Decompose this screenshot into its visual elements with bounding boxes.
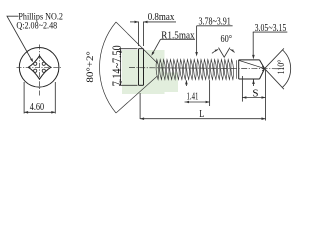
svg-text:110°: 110° — [275, 60, 286, 75]
L extension line left — [139, 93, 141, 119]
svg-text:60°: 60° — [221, 33, 233, 45]
7.14~7.50 extension line bottom — [119, 84, 138, 86]
3.05~3.15 bottom arrow tail — [253, 80, 255, 87]
front view horizontal centerline — [17, 66, 63, 68]
drill point body top edge — [239, 59, 260, 61]
3.78~3.91 text underline — [197, 25, 233, 27]
7.14~7.50 extension line top — [119, 48, 138, 50]
svg-text:0.8max: 0.8max — [148, 11, 175, 23]
S / L extension line right — [265, 70, 267, 121]
svg-text:80°+2°: 80°+2° — [86, 51, 96, 82]
60 degree arc left with arrow — [212, 49, 218, 53]
svg-text:4.60: 4.60 — [30, 101, 44, 113]
7.14~7.50 dimension line — [120, 49, 122, 86]
green watermark rect behind head side view — [122, 50, 165, 94]
3.78~3.91 leader vertical — [196, 26, 198, 52]
4.60 extension line left — [23, 82, 25, 114]
drill point lower flank — [260, 69, 265, 79]
4.60 dimension line — [24, 111, 55, 113]
svg-text:3.05~3.15: 3.05~3.15 — [255, 22, 287, 35]
svg-text:7.14~7.50: 7.14~7.50 — [110, 45, 124, 86]
drill point upper flank — [260, 60, 265, 69]
phillips recess cross outline — [28, 56, 51, 79]
front view vertical centerline — [39, 45, 41, 97]
drill point flute diagonal — [239, 60, 265, 68]
head face line inner (cone base) — [143, 49, 145, 86]
phillips recess corner circle NW — [34, 62, 37, 65]
110 degree upper line — [262, 48, 284, 71]
3.05~3.15 text underline — [253, 31, 287, 33]
0.8max extension line right — [143, 22, 145, 47]
leader arrowhead — [30, 58, 33, 62]
0.8max extension line left — [138, 22, 140, 47]
R1.5max leader underline — [161, 38, 196, 40]
front view head circle — [19, 48, 59, 88]
leader line Phillips NO.2 — [7, 16, 32, 61]
phillips recess corner circle SE — [42, 69, 45, 72]
phillips recess corner circle SW — [34, 69, 37, 72]
0.8max dimension arrow tail left — [130, 21, 139, 23]
svg-text:L: L — [199, 108, 204, 120]
svg-text:3.78~3.91: 3.78~3.91 — [199, 15, 231, 28]
3.78~3.91 bottom arrow at lower crest — [185, 81, 187, 87]
svg-text:1.41: 1.41 — [187, 90, 199, 102]
svg-text:S: S — [252, 87, 258, 99]
green watermark rect behind thread start — [165, 73, 179, 93]
80 degree dimension arc — [100, 22, 116, 113]
head cone lower line extended to 80deg arc — [116, 76, 158, 113]
drill point body bottom edge — [239, 78, 260, 80]
S extension line left — [241, 76, 243, 102]
screw axis centerline — [129, 68, 284, 69]
svg-text:R1.5max: R1.5max — [161, 30, 194, 41]
3.05~3.15 leader vertical — [252, 32, 254, 55]
1.41 dimension line — [185, 101, 210, 103]
R1.5max leader diagonal — [152, 39, 160, 54]
head face line outer — [138, 49, 140, 86]
L dimension line — [140, 118, 265, 120]
110 degree arc — [283, 50, 291, 87]
S dimension line — [242, 97, 265, 99]
drill point body left edge — [238, 60, 240, 79]
4.60 extension line right — [54, 82, 56, 114]
110 degree lower line — [262, 66, 284, 89]
phillips recess corner circle NE — [42, 62, 45, 65]
1.41 extension line right — [209, 80, 211, 106]
head rim bottom — [139, 84, 144, 86]
svg-text:Q:2.08~2.48: Q:2.08~2.48 — [16, 20, 57, 31]
0.8max dimension tail right / text underline — [144, 21, 177, 23]
head rim top — [139, 48, 144, 50]
thread end vertical — [236, 60, 238, 79]
head cone upper line extended to 80deg arc — [116, 22, 158, 63]
60 degree arc right with arrow — [230, 49, 234, 52]
thread helix coil lenses — [156, 59, 234, 79]
60 degree vee — [219, 48, 230, 58]
